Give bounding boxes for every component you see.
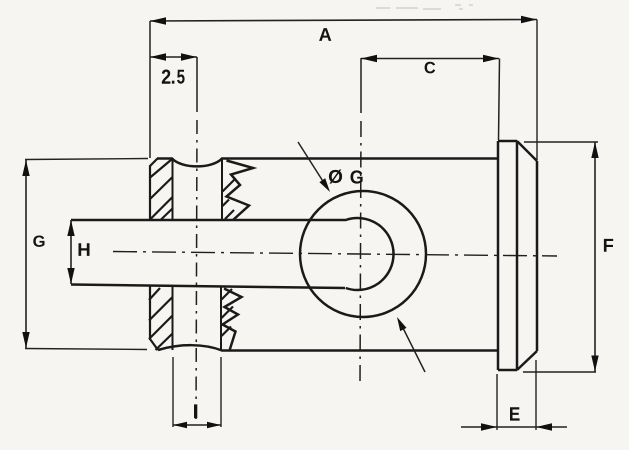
dimension I left extension: [172, 357, 174, 427]
leader arrow head (lower): [397, 317, 407, 331]
dimension C left arrow: [361, 55, 377, 62]
dimension C right arrow: [483, 55, 499, 62]
body bottom edge with relief wave: [158, 345, 498, 350]
body top-left chamfer: [150, 159, 158, 167]
label I: [194, 404, 197, 418]
dimension A right arrow: [521, 16, 537, 23]
bottom cross-section: right block vertical edge: [220, 287, 222, 350]
label F: [604, 239, 613, 252]
dimension G bottom extension: [25, 349, 147, 350]
scan smudge top: [376, 5, 473, 9]
dimension I line: [173, 424, 221, 426]
flange outer right edge: [536, 161, 539, 351]
top cross-section: right block hatching: [223, 179, 236, 219]
flange bottom chamfer: [517, 351, 537, 370]
bottom cross-section: inner vertical edge left block: [172, 287, 174, 350]
bottom cross-section: torn break edge: [223, 289, 242, 351]
flange top edge: [498, 140, 517, 143]
top cross-section: torn break edge: [227, 161, 254, 221]
label C: [425, 62, 436, 74]
label G: [33, 236, 44, 247]
body top edge with relief groove dip: [157, 159, 498, 167]
dimension E right outside arrow: [536, 423, 552, 430]
top cross-section: right block vertical edge: [221, 158, 223, 220]
dimension F bottom extension: [523, 371, 596, 373]
label E: [510, 407, 520, 420]
label A: [319, 28, 331, 41]
dimension E left outside arrow: [481, 423, 497, 430]
panel-hole centerline x=197 (2.5 extension): [196, 57, 198, 112]
flange top chamfer: [517, 141, 537, 161]
dimension A left arrow: [150, 17, 166, 24]
label 2.5: [162, 70, 171, 84]
boss outer circle (diameter G): [300, 191, 426, 317]
leader arrow to circle (lower): [401, 324, 425, 372]
vertical centerline through circle (also C extension): [360, 58, 362, 113]
dimension C line: [361, 58, 499, 60]
flange left face: [497, 141, 500, 370]
top cross-section: inner vertical edge left block: [172, 158, 174, 220]
dimension I left arrow: [173, 422, 187, 428]
bottom cross-section: right block hatching: [222, 289, 234, 336]
leader arrow head (upper): [319, 178, 330, 192]
label diameter G: [329, 170, 342, 184]
dimension G bottom arrow: [22, 332, 29, 348]
dimension G line: [25, 160, 27, 348]
dimension E right extension: [535, 360, 537, 430]
leader arrow to circle (upper): [298, 142, 326, 186]
top cross-section: left hatched block: [150, 160, 174, 221]
dimension A right extension: [536, 20, 538, 161]
body left edge lower segment: [149, 285, 151, 340]
dimension A left extension (body edge extended): [149, 21, 151, 158]
body bottom-left chamfer: [150, 339, 158, 350]
dimension F top arrow: [591, 142, 598, 158]
dimension H top arrow: [67, 220, 74, 236]
dimension 2.5 left arrow: [150, 53, 166, 60]
dimension 2.5 line: [150, 56, 197, 58]
dimension G top arrow: [22, 160, 29, 176]
dimension I right extension: [220, 357, 222, 427]
main horizontal centerline (part axis): [113, 252, 557, 257]
dimension G top extension: [25, 159, 148, 160]
dimension C right extension: [499, 59, 500, 141]
body left edge upper segment: [149, 166, 151, 220]
dimension F bottom arrow: [591, 356, 598, 372]
label H: [79, 243, 90, 256]
dimension I right arrow: [207, 422, 221, 428]
dimension 2.5 right arrow: [181, 53, 197, 60]
dimension E left extension: [496, 374, 498, 430]
flange bottom edge: [498, 369, 517, 372]
flange face edge line: [516, 141, 519, 370]
dimension H line: [70, 220, 72, 284]
bottom cross-section: left hatched block: [149, 288, 173, 350]
dimension F top extension: [524, 141, 598, 143]
dimension A line: [150, 20, 537, 22]
dimension F line: [594, 142, 596, 372]
dimension E line: [461, 426, 567, 428]
keyhole slot outline (pin slot): [71, 218, 394, 290]
dimension H bottom arrow: [67, 268, 74, 284]
